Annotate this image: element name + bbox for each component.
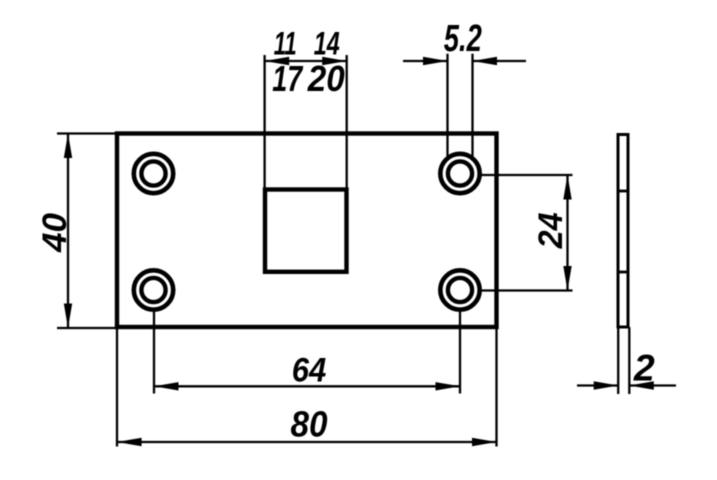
64 arrow left: [154, 382, 179, 390]
value label 24: [532, 212, 570, 249]
cutout dim arrow right: [322, 57, 347, 65]
hole bottom-left: [134, 270, 173, 309]
2 arrow right: [629, 381, 654, 389]
hole top-left: [134, 154, 173, 193]
value label 5.2: [444, 18, 482, 60]
width 80 extension line left: [116, 327, 118, 447]
cutout width extension line left: [263, 55, 265, 190]
svg-text:40: 40: [36, 213, 74, 253]
40 arrow down: [64, 304, 72, 329]
2 arrow left: [594, 381, 619, 389]
value label 14: [314, 26, 340, 62]
value label 17: [272, 58, 303, 99]
svg-text:5.2: 5.2: [444, 18, 482, 60]
cutout dim arrow left: [265, 57, 290, 65]
height 40 dimension line: [67, 134, 69, 329]
5.2 arrow left: [423, 57, 448, 65]
80 arrow right: [472, 438, 497, 446]
24 dimension line: [566, 175, 568, 291]
hole spacing 24 extension line top: [481, 174, 573, 176]
24 arrow up: [563, 175, 571, 200]
svg-text:17: 17: [272, 58, 303, 99]
5.2 arrow right: [473, 57, 498, 65]
thickness 2 extension line left: [617, 327, 619, 394]
svg-text:2: 2: [633, 347, 655, 389]
hole spacing 64 extension line right: [459, 310, 461, 394]
64 arrow right: [436, 382, 461, 390]
svg-text:80: 80: [291, 403, 328, 444]
svg-text:64: 64: [292, 351, 327, 389]
value label 64: [292, 351, 327, 389]
cutout width extension line right: [346, 55, 348, 190]
side view cutout edge tick upper: [617, 190, 630, 193]
hole diameter 5.2 extension line right: [471, 54, 473, 156]
cutout width dimension line: [265, 60, 347, 62]
width 80 extension line right: [495, 327, 497, 447]
square cutout: [265, 190, 347, 272]
5.2 dimension line left segment: [403, 60, 448, 62]
height 40 extension line top: [57, 132, 119, 134]
svg-text:20: 20: [307, 58, 345, 99]
value label 11: [274, 26, 297, 62]
value label 2: [633, 347, 655, 389]
hole top-right: [440, 154, 479, 193]
hole bottom-right: [440, 270, 479, 309]
svg-text:11: 11: [274, 26, 297, 62]
value label 80: [291, 403, 328, 444]
64 dimension line: [154, 385, 460, 387]
80 arrow left: [117, 438, 142, 446]
40 arrow up: [64, 134, 72, 159]
2 dimension line left segment: [577, 384, 619, 386]
svg-text:14: 14: [314, 26, 340, 62]
2 dimension line right segment: [629, 384, 676, 386]
plate outline front view: [117, 134, 497, 328]
thickness 2 extension line right: [628, 327, 630, 394]
side view cutout edge tick lower: [617, 271, 630, 274]
hole spacing 64 extension line left: [153, 310, 155, 394]
value label 40: [36, 213, 74, 253]
height 40 extension line bottom: [57, 327, 119, 329]
5.2 dimension line right segment: [473, 60, 527, 62]
value label 20: [307, 58, 345, 99]
svg-text:24: 24: [532, 212, 570, 249]
side view plate bar: [618, 135, 628, 328]
hole spacing 24 extension line bottom: [481, 289, 573, 291]
80 dimension line: [117, 441, 497, 443]
hole diameter 5.2 extension line left: [446, 54, 448, 156]
24 arrow down: [563, 266, 571, 291]
